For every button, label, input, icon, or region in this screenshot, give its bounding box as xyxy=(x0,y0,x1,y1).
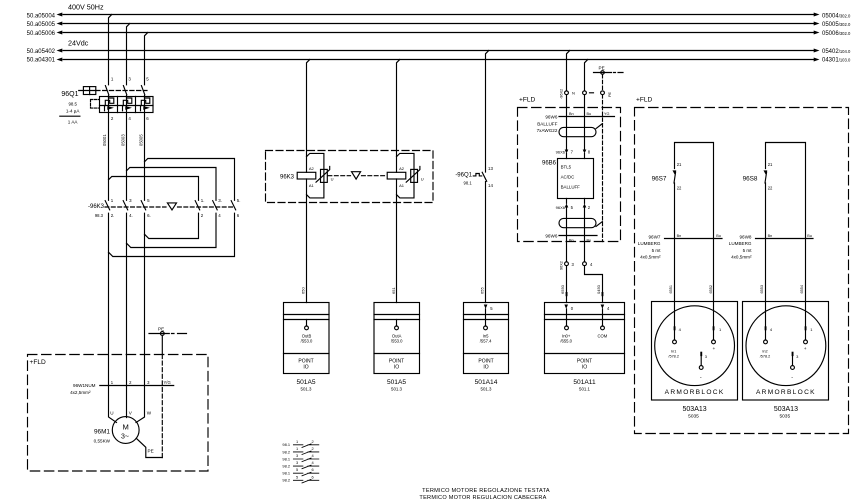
svg-text:+: + xyxy=(804,347,807,352)
svg-text:4x0,5mm²: 4x0,5mm² xyxy=(640,255,661,260)
svg-text:7: 7 xyxy=(571,150,574,155)
wire label coil2 out xyxy=(391,287,396,294)
wire labels 96S7 leads xyxy=(669,285,713,293)
svg-text:5: 5 xyxy=(146,77,149,82)
svg-text:4: 4 xyxy=(770,327,773,332)
label 24Vdc xyxy=(68,39,89,48)
svg-text:1: 1 xyxy=(111,77,114,82)
label 400V 50Hz xyxy=(68,3,104,12)
svg-text:98.1: 98.1 xyxy=(282,471,290,476)
limit switch 96S8 xyxy=(743,143,806,327)
svg-text:/655.0: /655.0 xyxy=(560,339,572,344)
svg-text:50.a05005: 50.a05005 xyxy=(27,22,56,28)
svg-text:/557.4: /557.4 xyxy=(480,339,492,344)
svg-text:96B6: 96B6 xyxy=(542,160,557,166)
svg-text:5: 5 xyxy=(490,306,493,311)
svg-text:5035: 5035 xyxy=(688,414,699,420)
svg-text:2: 2 xyxy=(312,446,314,451)
terminal circles below FLD1 xyxy=(560,261,594,270)
svg-text:501A11: 501A11 xyxy=(573,379,596,386)
svg-text:96W6: 96W6 xyxy=(545,234,557,239)
svg-text:4x2,5mm²: 4x2,5mm² xyxy=(70,390,91,395)
wire label 05001 xyxy=(102,134,107,146)
svg-text:98.3: 98.3 xyxy=(95,213,104,218)
svg-text:5: 5 xyxy=(296,474,298,479)
svg-text:M: M xyxy=(123,423,129,432)
linkage triangle coil xyxy=(352,172,361,179)
svg-text:501A5: 501A5 xyxy=(296,379,315,386)
svg-text:-: - xyxy=(700,375,702,381)
svg-text:96K3: 96K3 xyxy=(280,174,295,180)
svg-text:04301/103.0: 04301/103.0 xyxy=(822,57,851,63)
wire phase L2 drop xyxy=(127,24,130,418)
PE node top xyxy=(594,65,624,241)
svg-text:Bu: Bu xyxy=(587,239,592,243)
svg-text:22: 22 xyxy=(768,186,773,191)
PLC box 501A14 In5 xyxy=(464,303,509,392)
wire coil 96K3 drop xyxy=(307,60,310,303)
svg-text:YG: YG xyxy=(604,112,610,116)
PE node motor area xyxy=(149,326,187,457)
wire phase L1 drop xyxy=(109,15,117,423)
wire to COM xyxy=(585,266,604,303)
svg-text:A1: A1 xyxy=(399,183,405,188)
svg-text:05005/302.0: 05005/302.0 xyxy=(822,22,851,28)
wire bus 05006 xyxy=(27,31,851,37)
svg-text:OutA: OutA xyxy=(392,333,402,338)
svg-text:3: 3 xyxy=(128,77,131,82)
wire to In0 xyxy=(560,266,568,303)
breaker 96Q1 body xyxy=(100,97,154,113)
svg-text:In5: In5 xyxy=(483,333,489,338)
svg-text:3.: 3. xyxy=(218,198,222,203)
svg-text:U: U xyxy=(110,410,113,415)
cable 96W7 xyxy=(638,234,722,260)
svg-text:98.5: 98.5 xyxy=(68,101,77,106)
svg-text:5: 5 xyxy=(147,198,150,203)
svg-text:2: 2 xyxy=(129,380,132,385)
svg-text:96M1: 96M1 xyxy=(94,429,110,436)
svg-text:05004/302.0: 05004/302.0 xyxy=(822,13,851,19)
varistor parallel 96K3 xyxy=(307,153,334,198)
svg-text:96X2: 96X2 xyxy=(560,261,564,270)
svg-text:655: 655 xyxy=(480,287,485,294)
enclosure +FLD motor box xyxy=(28,355,209,472)
PLC box 501A11 In0 COM xyxy=(545,303,625,392)
svg-text:-96K3: -96K3 xyxy=(88,204,105,210)
svg-text:1: 1 xyxy=(111,380,114,385)
svg-text:POINT: POINT xyxy=(298,358,313,364)
svg-text:In1: In1 xyxy=(671,349,676,353)
contactor 96K3 mechanical dashed link xyxy=(105,206,234,208)
svg-text:-96Q1: -96Q1 xyxy=(455,173,472,179)
svg-text:AC/DC: AC/DC xyxy=(561,174,575,179)
svg-text:3: 3 xyxy=(572,262,575,267)
svg-text:21: 21 xyxy=(677,162,682,167)
coil 96K3 xyxy=(280,166,316,188)
svg-text:22: 22 xyxy=(677,186,682,191)
svg-text:4x0,5mm²: 4x0,5mm² xyxy=(731,255,752,260)
svg-text:3: 3 xyxy=(129,198,132,203)
svg-text:5: 5 xyxy=(571,205,574,210)
svg-text:501.3: 501.3 xyxy=(391,387,403,392)
wire branch L2 to pole 3r xyxy=(127,168,217,201)
breaker 96Q1 pin labels 2 4 6 xyxy=(111,116,149,121)
svg-text:W: W xyxy=(147,410,152,415)
svg-text:4: 4 xyxy=(679,327,682,332)
connector ARMORBLOCK 1 xyxy=(652,302,738,420)
svg-text:1 AA: 1 AA xyxy=(68,120,79,125)
wire coil A1A2 drop xyxy=(397,60,400,303)
linkage triangle xyxy=(167,203,176,210)
svg-text:6: 6 xyxy=(312,467,314,472)
svg-text:POINT: POINT xyxy=(389,358,404,364)
svg-text:6553: 6553 xyxy=(760,285,764,293)
svg-text:4: 4 xyxy=(607,306,610,311)
svg-text:A1: A1 xyxy=(309,183,315,188)
svg-text:50.a05402: 50.a05402 xyxy=(27,49,56,55)
varistor parallel coil2 xyxy=(397,153,424,198)
svg-text:OutB: OutB xyxy=(302,333,312,338)
svg-text:24Vdc: 24Vdc xyxy=(68,39,89,48)
svg-text:3: 3 xyxy=(705,354,708,359)
contactor 96K3 right pole levers xyxy=(195,201,236,210)
limit switch 96S7 xyxy=(652,143,714,327)
PLC box 501A5 OutA xyxy=(374,303,420,392)
svg-text:Y/G: Y/G xyxy=(164,380,171,385)
svg-text:IO: IO xyxy=(394,365,399,371)
svg-text:2.: 2. xyxy=(111,213,115,218)
breaker 96Q1 setting labels xyxy=(60,100,99,125)
coil A1A2 (second) xyxy=(387,166,406,188)
svg-text:5035: 5035 xyxy=(779,414,790,420)
svg-text:6: 6 xyxy=(312,474,314,479)
wire branch L3 to pole 5r xyxy=(145,159,235,201)
svg-text:96W6: 96W6 xyxy=(545,115,557,120)
svg-text:98.1: 98.1 xyxy=(282,442,290,447)
svg-text:7xAWG22: 7xAWG22 xyxy=(537,128,558,133)
svg-text:U: U xyxy=(421,176,424,181)
coil mechanical dashed link xyxy=(328,175,387,177)
svg-text:05003: 05003 xyxy=(121,134,126,146)
svg-text:TERMICO MOTORE REGOLAZIONE TES: TERMICO MOTORE REGOLAZIONE TESTATA xyxy=(422,488,550,494)
svg-text:96Q1: 96Q1 xyxy=(61,91,78,98)
svg-text:2: 2 xyxy=(111,116,114,121)
svg-text:/553.0: /553.0 xyxy=(391,339,403,344)
svg-text:05006/302.0: 05006/302.0 xyxy=(822,31,851,37)
svg-text:IO: IO xyxy=(303,365,308,371)
svg-text:Bu: Bu xyxy=(807,234,812,238)
svg-text:651: 651 xyxy=(391,287,396,294)
svg-text:501.3: 501.3 xyxy=(481,387,493,392)
svg-text:05402/104.0: 05402/104.0 xyxy=(822,49,851,55)
svg-text:A2: A2 xyxy=(399,166,405,171)
svg-text:Bn: Bn xyxy=(768,234,773,238)
svg-text:501.1: 501.1 xyxy=(579,387,591,392)
transducer 96B6 xyxy=(542,159,594,199)
svg-text:96X6: 96X6 xyxy=(556,205,566,210)
svg-text:400V 50Hz: 400V 50Hz xyxy=(68,3,104,12)
svg-text:0,55KW: 0,55KW xyxy=(94,439,111,444)
svg-text:6554: 6554 xyxy=(800,285,804,293)
svg-text:13: 13 xyxy=(488,166,493,171)
svg-text:6: 6 xyxy=(237,213,240,218)
cable oval bottom xyxy=(559,218,602,227)
svg-text:In2: In2 xyxy=(762,349,767,353)
svg-text:IO: IO xyxy=(582,365,587,371)
motor 96M1 xyxy=(94,417,139,444)
contactor 96K3 labels xyxy=(88,204,105,218)
svg-text:BTL5: BTL5 xyxy=(561,164,572,169)
breaker 96Q1 mechanical dashed link xyxy=(96,90,147,92)
svg-text:3~: 3~ xyxy=(121,434,129,441)
svg-text:8: 8 xyxy=(588,150,591,155)
svg-text:PE: PE xyxy=(599,65,605,70)
svg-text:Bu: Bu xyxy=(587,112,592,116)
svg-text:98.2: 98.2 xyxy=(282,464,290,469)
svg-text:LUMBERG: LUMBERG xyxy=(638,241,661,246)
svg-text:Bu: Bu xyxy=(716,234,721,238)
svg-text:TERMICO MOTOR REGULACION CABEC: TERMICO MOTOR REGULACION CABECERA xyxy=(419,495,546,501)
wire aux 96Q1 drop xyxy=(486,51,489,303)
svg-text:501A5: 501A5 xyxy=(387,379,406,386)
svg-text:96W8: 96W8 xyxy=(739,234,751,239)
terminal arrows 96X6 top xyxy=(556,149,591,154)
terminal arrows 96X6 bottom xyxy=(556,204,591,210)
svg-text:6550: 6550 xyxy=(560,284,565,294)
svg-text:50.a04301: 50.a04301 xyxy=(27,57,56,63)
wire labels 96S8 leads xyxy=(760,285,804,293)
svg-text:4: 4 xyxy=(128,116,131,121)
svg-text:05001: 05001 xyxy=(102,134,107,146)
svg-text:98.2: 98.2 xyxy=(282,478,290,483)
PLC box 501A5 OutB xyxy=(284,303,330,392)
contactor 96K3 left pin labels xyxy=(111,198,151,218)
svg-text:/578.2: /578.2 xyxy=(760,354,771,358)
svg-text:3: 3 xyxy=(296,453,298,458)
svg-text:+FLD: +FLD xyxy=(30,359,47,366)
cable 96W6 top xyxy=(537,112,615,133)
contactor 96K3 left pole levers xyxy=(105,201,146,210)
svg-text:PE: PE xyxy=(148,448,154,453)
svg-text:-96X2: -96X2 xyxy=(560,89,564,99)
svg-text:96W7: 96W7 xyxy=(648,234,660,239)
breaker 96Q1 levers xyxy=(105,86,144,95)
wire 24V supply drop xyxy=(567,51,570,159)
enclosure coil dashed box xyxy=(266,151,434,203)
wire phase L3 drop xyxy=(136,33,148,423)
svg-text:96W1NUM: 96W1NUM xyxy=(73,383,96,388)
svg-text:96X6: 96X6 xyxy=(556,149,566,154)
svg-text:LUMBERG: LUMBERG xyxy=(729,241,752,246)
breaker 96Q1 test button box xyxy=(61,87,95,99)
svg-text:14: 14 xyxy=(488,183,493,188)
cable 96W8 xyxy=(729,234,813,260)
wire bus 05402 xyxy=(27,49,851,55)
svg-text:6551: 6551 xyxy=(669,285,673,293)
breaker 96Q1 thermal elements xyxy=(105,97,150,106)
svg-text:Bn: Bn xyxy=(677,234,682,238)
svg-text:1: 1 xyxy=(719,327,722,332)
connector ARMORBLOCK 2 xyxy=(743,302,829,420)
svg-text:5 mt: 5 mt xyxy=(743,248,753,253)
svg-text:BALLUFF: BALLUFF xyxy=(537,121,557,126)
title text xyxy=(419,488,549,501)
svg-text:3: 3 xyxy=(147,380,150,385)
svg-text:98.1: 98.1 xyxy=(282,456,290,461)
motor terminal labels U V W xyxy=(110,410,151,415)
svg-text:ARMORBLOCK: ARMORBLOCK xyxy=(756,389,816,396)
wire label coil1 out xyxy=(301,287,306,294)
svg-text:501A14: 501A14 xyxy=(475,379,498,386)
svg-text:6.: 6. xyxy=(147,213,151,218)
svg-text:98.2: 98.2 xyxy=(282,449,290,454)
svg-text:BALLUFF: BALLUFF xyxy=(561,184,581,189)
svg-text:0: 0 xyxy=(571,306,574,311)
svg-text:5 mt: 5 mt xyxy=(652,248,662,253)
wire bus 05005 xyxy=(27,22,851,28)
svg-text:COM: COM xyxy=(598,333,608,338)
contact cross-reference table xyxy=(282,439,318,483)
svg-text:/578.2: /578.2 xyxy=(668,354,679,358)
svg-text:2: 2 xyxy=(201,213,204,218)
svg-text:1: 1 xyxy=(296,446,298,451)
svg-text:+FLD: +FLD xyxy=(519,97,536,104)
breaker 96Q1 magnetic elements xyxy=(105,106,150,111)
svg-text:503A13: 503A13 xyxy=(774,406,798,413)
svg-text:96S7: 96S7 xyxy=(652,175,667,182)
enclosure +FLD box 1 xyxy=(518,97,621,242)
wire 0V supply drop xyxy=(585,60,588,159)
svg-text:A2: A2 xyxy=(309,166,315,171)
svg-text:IO: IO xyxy=(483,365,488,371)
svg-text:4: 4 xyxy=(590,262,593,267)
svg-text:/553.0: /553.0 xyxy=(301,339,313,344)
cable 96W6 bottom xyxy=(545,234,597,243)
wire pole 3r bottom to L2 xyxy=(127,213,217,247)
svg-text:1: 1 xyxy=(296,439,298,444)
svg-text:50.a05004: 50.a05004 xyxy=(27,13,56,19)
cable 96W1NUM xyxy=(70,380,174,395)
svg-text:PE: PE xyxy=(158,326,164,331)
svg-text:+FLD: +FLD xyxy=(636,97,653,104)
svg-text:N: N xyxy=(572,91,575,96)
svg-text:V: V xyxy=(129,410,133,415)
svg-text:4.: 4. xyxy=(129,213,133,218)
terminal strip 96X2 xyxy=(560,89,613,99)
svg-text:2: 2 xyxy=(588,205,591,210)
svg-text:0450: 0450 xyxy=(596,284,601,294)
svg-text:5.: 5. xyxy=(237,198,241,203)
svg-text:6552: 6552 xyxy=(709,285,713,293)
cable oval top xyxy=(559,124,602,137)
svg-text:1-4 µA: 1-4 µA xyxy=(66,108,81,113)
svg-text:98.1: 98.1 xyxy=(464,181,473,186)
svg-text:501.3: 501.3 xyxy=(301,387,313,392)
wire pole 1r bottom to L3 xyxy=(145,213,199,238)
svg-text:503A13: 503A13 xyxy=(683,406,707,413)
svg-text:ARMORBLOCK: ARMORBLOCK xyxy=(665,389,725,396)
svg-text:U: U xyxy=(331,176,334,181)
wires B6 bottom xyxy=(567,199,585,262)
svg-text:21: 21 xyxy=(768,162,773,167)
svg-text:4: 4 xyxy=(312,453,315,458)
wire bus 04301 xyxy=(27,57,851,63)
aux contact -96Q1 xyxy=(455,166,493,188)
svg-text:Bn: Bn xyxy=(569,112,574,116)
svg-text:4: 4 xyxy=(312,460,315,465)
svg-text:POINT: POINT xyxy=(577,358,592,364)
svg-text:POINT: POINT xyxy=(478,358,493,364)
svg-text:1: 1 xyxy=(810,327,813,332)
wire branch L1 to pole 1r xyxy=(109,177,199,201)
wire label 05003 xyxy=(121,134,126,146)
enclosure +FLD box 2 xyxy=(635,97,849,434)
svg-text:3: 3 xyxy=(296,460,298,465)
svg-text:05005: 05005 xyxy=(139,134,144,146)
svg-text:PE: PE xyxy=(608,91,612,97)
svg-text:1.: 1. xyxy=(201,198,205,203)
svg-text:3: 3 xyxy=(796,354,799,359)
svg-text:650: 650 xyxy=(301,287,306,294)
svg-text:5: 5 xyxy=(296,467,298,472)
wire label aux out xyxy=(480,287,485,294)
wire pole 5r bottom to L1 xyxy=(109,213,235,256)
wire bus 05004 xyxy=(27,13,851,20)
svg-text:4: 4 xyxy=(218,213,221,218)
svg-text:2: 2 xyxy=(312,439,314,444)
svg-text:96S8: 96S8 xyxy=(743,175,758,182)
svg-text:50.a05006: 50.a05006 xyxy=(27,31,56,37)
breaker 96Q1 pin labels 1 3 5 xyxy=(111,77,149,82)
svg-text:6: 6 xyxy=(146,116,149,121)
svg-text:1: 1 xyxy=(111,198,114,203)
contactor 96K3 right pin labels xyxy=(201,198,241,218)
svg-text:Bn: Bn xyxy=(569,239,574,243)
wire motor PE xyxy=(136,438,162,457)
wire label 05005 xyxy=(139,134,144,146)
svg-text:+: + xyxy=(712,347,715,352)
svg-text:In0+: In0+ xyxy=(562,333,571,338)
svg-text:-: - xyxy=(791,375,793,381)
